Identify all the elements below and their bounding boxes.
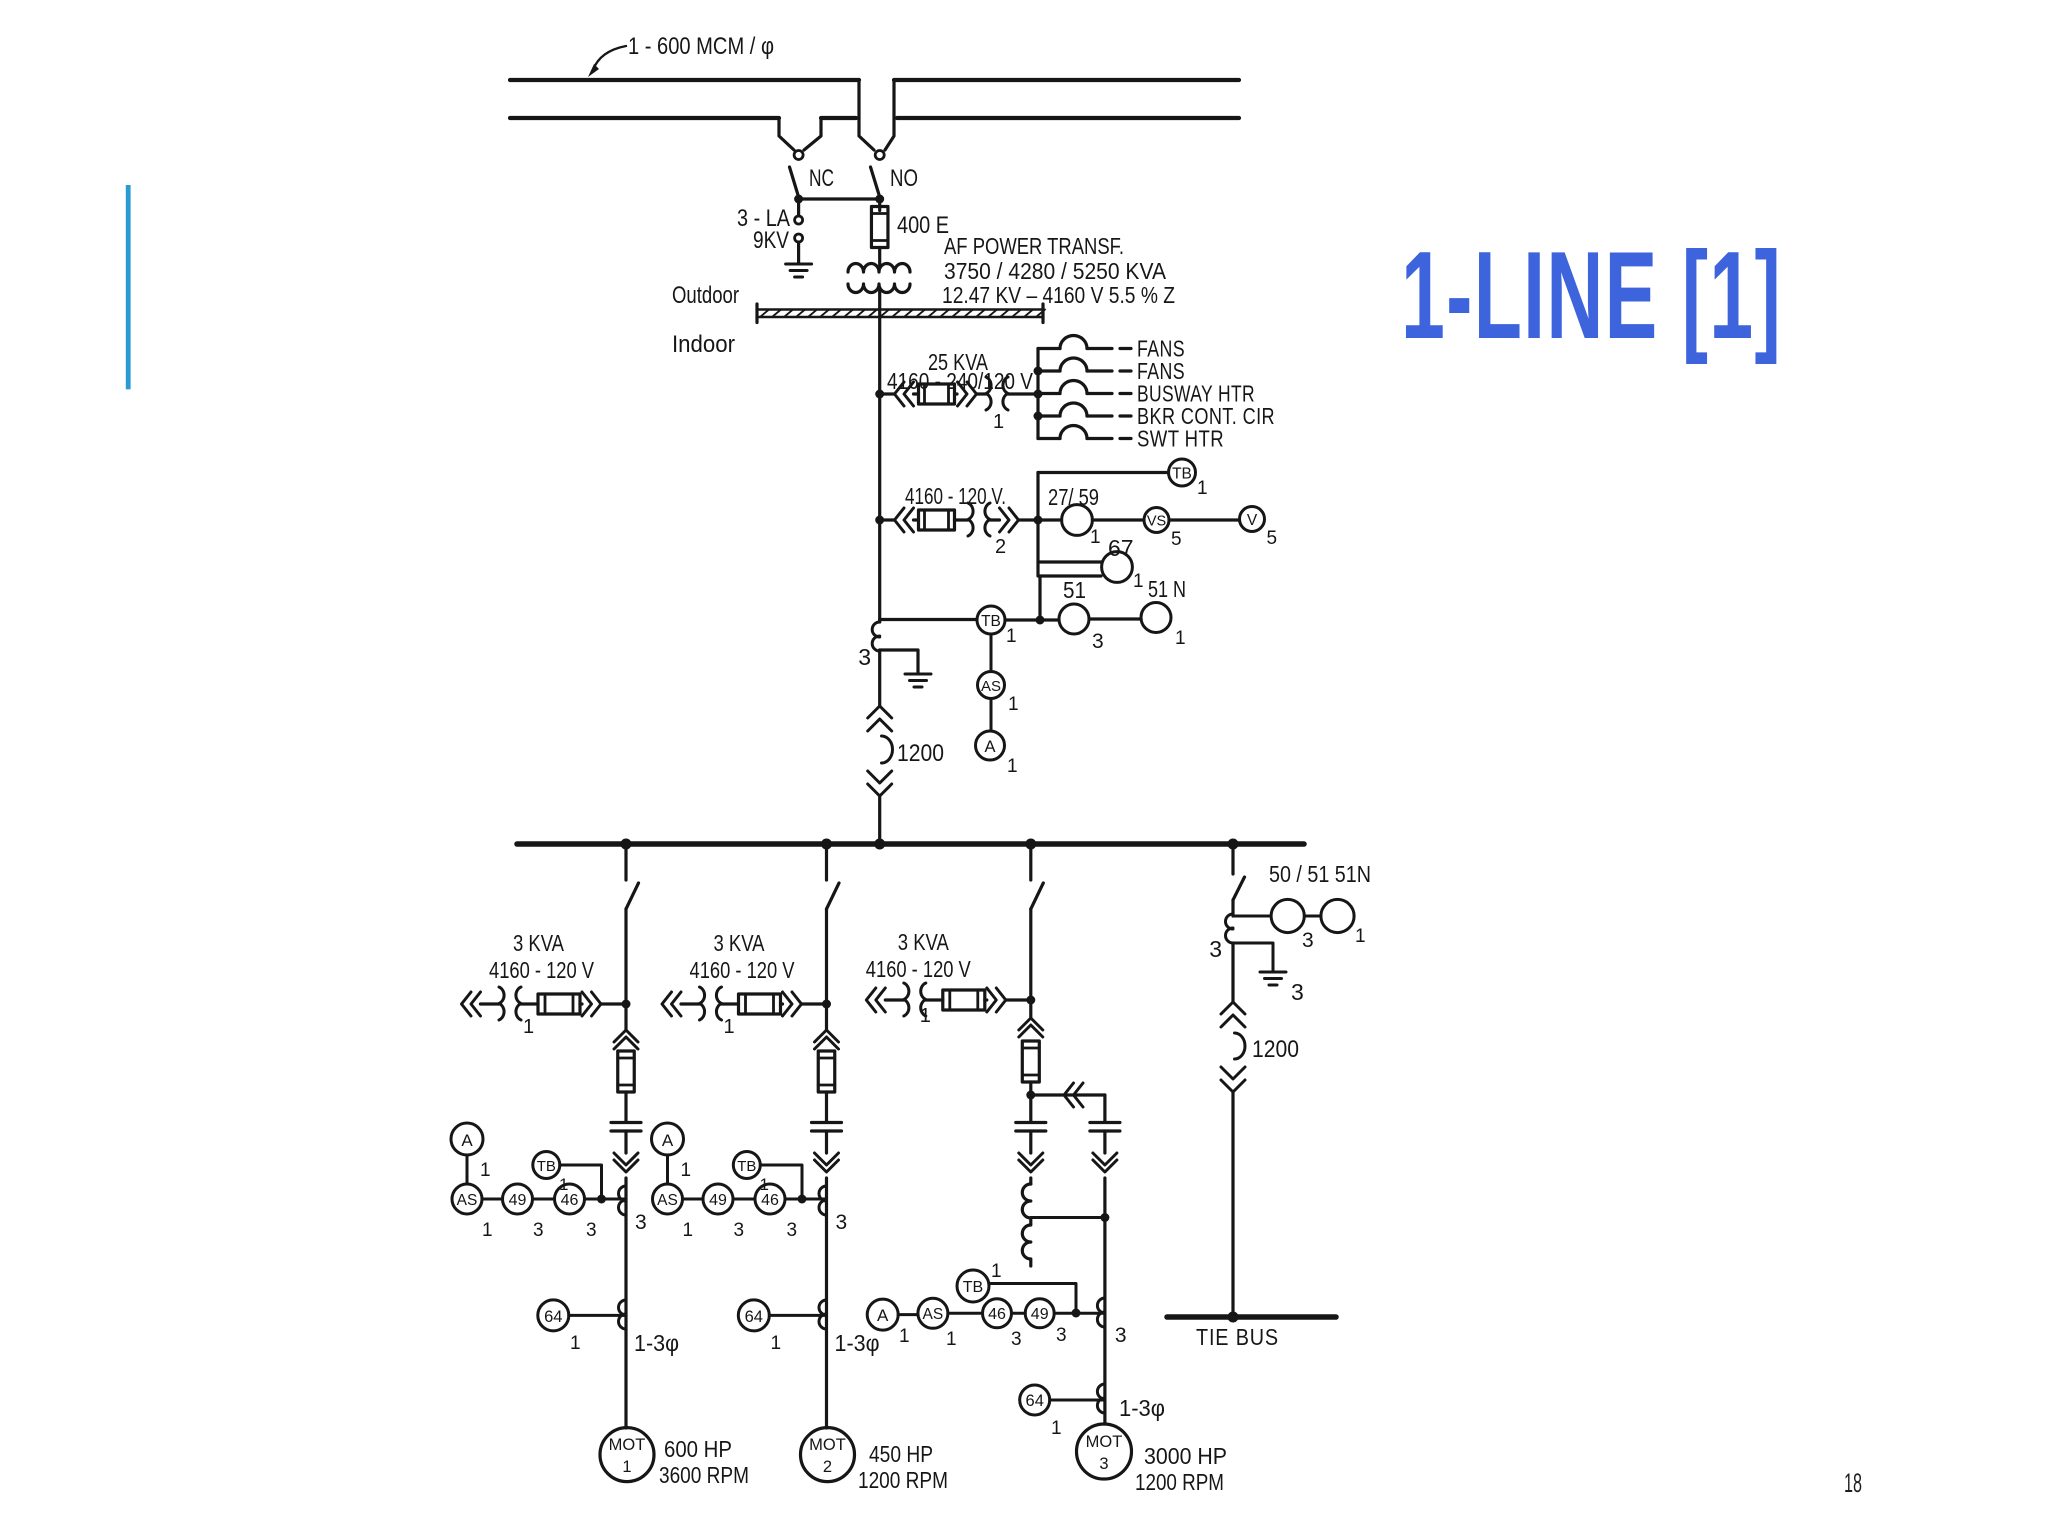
node switch NC bottom <box>794 195 803 204</box>
wire tie CT ground leg <box>1233 943 1273 971</box>
svg-text:1200 RPM: 1200 RPM <box>1135 1469 1224 1495</box>
svg-text:4160 - 120 V: 4160 - 120 V <box>690 957 796 983</box>
feeder3 wire fuse to chevrons <box>985 998 987 1001</box>
breaker 52-tie drawout chevrons top <box>1221 1002 1245 1027</box>
wire 64 to CT feeder2 <box>769 1314 826 1317</box>
relay 51N ground overcurrent <box>1141 603 1171 633</box>
svg-text:3: 3 <box>1115 1324 1127 1347</box>
wire feeder3 from bus <box>1029 846 1032 880</box>
feeder1 drawout chevrons PT line side <box>462 992 481 1016</box>
svg-text:2: 2 <box>823 1458 832 1476</box>
wire A to AS feeder1 <box>466 1155 469 1184</box>
svg-text:AS: AS <box>923 1306 944 1323</box>
node reactor tap junction <box>1100 1213 1109 1222</box>
svg-text:2: 2 <box>995 536 1006 558</box>
wire between switches <box>799 197 880 200</box>
wire CPT panel bus vertical <box>1036 349 1039 439</box>
svg-text:400 E: 400 E <box>897 212 949 239</box>
wire TB to AS main <box>990 634 993 672</box>
svg-text:51: 51 <box>1063 577 1086 603</box>
svg-text:1-LINE [1]: 1-LINE [1] <box>1401 227 1782 365</box>
wire feeder3 fuse to junction <box>1029 1082 1032 1095</box>
current transformer ground sensor feeder3 <box>1097 1384 1105 1413</box>
relay 49 thermal feeder3 <box>1025 1299 1054 1328</box>
wire feeder3 to contactor <box>1029 1000 1032 1018</box>
wire tie from bus <box>1231 846 1234 874</box>
relay 51N tie <box>1321 899 1354 932</box>
feeder2 fuse PT secondary <box>739 994 781 1014</box>
svg-text:TB: TB <box>981 613 1001 630</box>
load branch BUSWAY HTR <box>1038 392 1060 395</box>
svg-text:3750 / 4280 / 5250 KVA: 3750 / 4280 / 5250 KVA <box>944 258 1167 284</box>
svg-text:VS: VS <box>1147 514 1166 530</box>
svg-text:450 HP: 450 HP <box>869 1441 933 1467</box>
switch AS ammeter switch feeder1 <box>452 1184 482 1214</box>
svg-text:1: 1 <box>1006 626 1017 647</box>
svg-text:1: 1 <box>683 1220 694 1241</box>
wire incoming bus phase B (bottom) <box>510 116 779 120</box>
svg-text:A: A <box>984 738 995 756</box>
outdoor-indoor boundary hatched wall <box>757 310 1043 318</box>
relay TB trip bus feeder3 <box>957 1270 989 1302</box>
wire fuse to chevrons <box>955 392 958 395</box>
feeder1 potential transformer 3KVA windings <box>499 987 521 1020</box>
wire to relay TB1 <box>1038 471 1169 474</box>
contactor feeder2 drawout chevrons top <box>815 1030 839 1049</box>
drawout funnel NC tap <box>779 118 794 150</box>
drawout chevrons CPT line side <box>895 382 914 406</box>
wire to PT fuse <box>914 518 919 521</box>
svg-text:3: 3 <box>1099 1455 1108 1473</box>
wire feeder2 to motor <box>825 1178 828 1428</box>
switch feeder2 blade <box>827 883 840 909</box>
wire TB to 51 <box>1005 618 1059 621</box>
node feeder1 tap <box>621 839 632 850</box>
feeder2 drawout chevrons PT feeder side <box>783 992 802 1016</box>
current transformer ground sensor feeder1 <box>619 1300 626 1329</box>
drawout chevrons PT line side <box>895 508 914 532</box>
relay TB trip bus feeder1 <box>533 1152 560 1179</box>
svg-text:1: 1 <box>1197 478 1208 499</box>
svg-text:1-3φ: 1-3φ <box>835 1330 880 1356</box>
wire 46 to 49 feeder3 <box>1012 1312 1026 1315</box>
relay 64 ground feeder1 <box>538 1300 569 1331</box>
svg-text:1: 1 <box>681 1160 692 1181</box>
breaker 52-main drawout chevrons top <box>868 706 892 731</box>
relay 51 time overcurrent <box>1059 604 1089 634</box>
svg-text:1200: 1200 <box>897 740 944 767</box>
svg-text:46: 46 <box>561 1192 579 1209</box>
svg-text:1: 1 <box>1051 1418 1062 1439</box>
wire feeder3 switch to PT tap <box>1029 909 1032 1000</box>
transformer CPT 25KVA windings <box>986 377 1008 410</box>
feeder2 wire chevrons to feeder <box>802 1002 827 1005</box>
breaker 52-tie drawout chevrons bottom <box>1221 1067 1245 1092</box>
svg-text:Indoor: Indoor <box>672 331 735 358</box>
svg-text:3: 3 <box>1209 936 1222 962</box>
svg-text:1: 1 <box>991 1261 1002 1282</box>
switch AS ammeter switch feeder3 <box>918 1298 948 1328</box>
svg-text:1 - 600 MCM / φ: 1 - 600 MCM / φ <box>628 33 774 60</box>
wire fuse to PT windings <box>955 518 969 521</box>
wire transformer secondary trunk <box>878 288 881 622</box>
wire PT to instrument bus <box>1019 518 1039 521</box>
node feeder1 PT tap <box>622 1000 631 1009</box>
wire AS to 49 feeder1 <box>482 1198 503 1201</box>
ground for arrester <box>786 264 812 277</box>
svg-text:A: A <box>662 1131 674 1150</box>
svg-text:5: 5 <box>1171 529 1182 550</box>
contactor feeder3 run chevrons bottom <box>1093 1153 1117 1172</box>
svg-text:51 N: 51 N <box>1148 576 1186 602</box>
relay 49 thermal feeder1 <box>503 1184 533 1214</box>
wire TB to junction feeder1 <box>560 1165 602 1199</box>
fuse feeder2 power fuse <box>818 1051 835 1092</box>
svg-text:1: 1 <box>1007 756 1018 777</box>
wire 51 to 51N <box>1089 617 1141 620</box>
switch AS ammeter switch feeder2 <box>653 1184 683 1214</box>
svg-text:49: 49 <box>509 1192 527 1209</box>
ground CT neutral <box>905 674 931 687</box>
load branch FANS <box>1038 369 1060 372</box>
node feeder2 PT tap <box>822 1000 831 1009</box>
wire TB feeder3 to relay junction <box>989 1284 1076 1314</box>
meter VS voltmeter switch <box>1144 508 1169 533</box>
relay 27/59 undervoltage-overvoltage <box>1062 505 1093 536</box>
contactor feeder1 drawout chevrons top <box>614 1030 638 1049</box>
fuse CPT <box>919 384 955 404</box>
wire feeder1 contact to chevrons <box>624 1131 627 1153</box>
wire tie breaker to tie bus <box>1231 1092 1234 1315</box>
svg-text:18: 18 <box>1844 1468 1862 1498</box>
svg-text:46: 46 <box>988 1306 1006 1323</box>
lightning arrester 3-LA 9KV <box>797 199 800 216</box>
node relay junction feeder2 <box>798 1195 807 1204</box>
node feeder3 tap <box>1025 839 1036 850</box>
wire breaker to main bus <box>878 796 881 842</box>
svg-text:3: 3 <box>1056 1325 1067 1346</box>
feeder3 wire chevrons to windings <box>885 998 904 1001</box>
transformer T1 secondary winding <box>848 284 910 293</box>
slide accent bar (blue) <box>126 185 131 389</box>
motor MOT 3 <box>1077 1424 1132 1479</box>
relay TB trip bus feeder2 <box>733 1152 760 1179</box>
svg-text:V: V <box>1247 512 1258 529</box>
svg-text:3: 3 <box>858 644 871 670</box>
wire CT circuit to relay 67 <box>1040 574 1101 577</box>
wire AS to A main <box>990 699 993 732</box>
fuse feeder1 power fuse <box>618 1051 635 1092</box>
svg-text:64: 64 <box>1026 1392 1044 1410</box>
node tie bus junction <box>1228 1312 1239 1323</box>
wire 27/59 to VS <box>1092 518 1144 521</box>
svg-text:3: 3 <box>1092 630 1104 653</box>
relay 64 ground feeder3 <box>1020 1385 1050 1415</box>
current transformer feeder2 phase CTs <box>819 1186 826 1215</box>
node CPT panel bus <box>1034 390 1043 399</box>
wire feeder3 run line to motor <box>1103 1178 1106 1424</box>
feeder3 wire chevrons to feeder <box>1006 998 1031 1001</box>
svg-text:Outdoor: Outdoor <box>672 282 739 309</box>
contactor feeder2 contact bars <box>812 1123 842 1132</box>
svg-text:3: 3 <box>586 1220 597 1241</box>
wire feeder1 to motor <box>624 1178 627 1428</box>
wire A to AS feeder3 <box>898 1313 918 1316</box>
relay 50/51 tie <box>1271 899 1304 932</box>
feeder1 wire chevrons to feeder <box>601 1002 626 1005</box>
wire instrument bus vertical <box>1036 473 1039 577</box>
relay 64 ground feeder2 <box>738 1300 769 1331</box>
svg-text:5: 5 <box>1267 528 1278 549</box>
svg-text:1: 1 <box>993 411 1004 433</box>
svg-text:3000 HP: 3000 HP <box>1144 1443 1227 1469</box>
svg-text:TIE BUS: TIE BUS <box>1196 1324 1279 1350</box>
wire CT to relay TB <box>880 618 977 621</box>
current transformer feeder3 phase CTs <box>1097 1298 1105 1327</box>
wire 50/51 to 51N tie <box>1304 915 1321 918</box>
wire feeder1 to contactor <box>624 1004 627 1030</box>
svg-text:MOT: MOT <box>609 1436 646 1454</box>
wire feeder2 from bus <box>825 846 828 880</box>
switch NO blade <box>871 167 880 197</box>
wire to fuse 400E <box>878 199 881 211</box>
wire 49 to 46 feeder1 <box>533 1198 555 1201</box>
wire PT windings to chevrons <box>990 518 1000 521</box>
node feeder3 start-run split <box>1026 1091 1035 1100</box>
feeder3 drawout chevrons PT feeder side <box>987 988 1006 1012</box>
wire feeder3 jumper to run contactor <box>1031 1093 1105 1096</box>
node relay junction feeder1 <box>597 1195 606 1204</box>
current transformer tie 3 <box>1226 914 1233 943</box>
node feeder2 tap <box>821 839 832 850</box>
svg-text:4160 - 240/120 V: 4160 - 240/120 V <box>887 368 1034 394</box>
node main incoming tap <box>874 839 885 850</box>
meter A ammeter feeder2 <box>652 1123 684 1155</box>
feeder2 wire fuse to chevrons <box>781 1002 783 1005</box>
svg-text:MOT: MOT <box>809 1436 846 1454</box>
wire trunk CT to breaker <box>878 650 881 706</box>
svg-text:46: 46 <box>761 1192 779 1209</box>
wire feeder2 fuse to contact <box>825 1092 828 1121</box>
transformer T1 primary winding <box>848 264 910 273</box>
fuse 400E <box>871 207 888 248</box>
meter A ammeter feeder1 <box>451 1123 483 1155</box>
wire VS to V <box>1169 518 1240 521</box>
wire to CPT fuse <box>914 392 919 395</box>
svg-text:A: A <box>461 1131 473 1150</box>
node relay junction feeder3 <box>1072 1309 1081 1318</box>
svg-text:3: 3 <box>1011 1329 1022 1350</box>
feeder3 drawout chevrons PT line side <box>866 988 885 1012</box>
svg-text:SWT HTR: SWT HTR <box>1137 426 1224 452</box>
wire feeder2 switch to PT tap <box>825 909 828 1004</box>
wire feeder1 switch to PT tap <box>624 909 627 1004</box>
svg-text:49: 49 <box>709 1192 727 1209</box>
relay 67 directional overcurrent <box>1102 552 1133 583</box>
relay TB trip bus <box>1169 459 1196 486</box>
load branch FANS <box>1038 347 1060 350</box>
svg-text:3: 3 <box>1302 929 1314 952</box>
wire feeder3 to reactor <box>1029 1178 1032 1184</box>
svg-text:1: 1 <box>1090 527 1101 548</box>
contactor feeder3 start contact <box>1016 1123 1046 1132</box>
feeder3 potential transformer 3KVA windings <box>904 983 926 1016</box>
wire 64 to CT feeder3 <box>1050 1399 1105 1402</box>
contactor feeder1 contact bars <box>611 1123 641 1132</box>
wire tie CT to breaker <box>1231 943 1234 1002</box>
svg-text:A: A <box>877 1306 889 1325</box>
svg-text:1: 1 <box>1175 628 1186 649</box>
svg-text:3 KVA: 3 KVA <box>898 929 950 955</box>
feeder2 drawout chevrons PT line side <box>662 992 681 1016</box>
svg-text:3: 3 <box>533 1220 544 1241</box>
breaker 52-main contact arc <box>882 736 893 763</box>
wire 49 to CT feeder3 <box>1054 1312 1105 1315</box>
svg-text:TB: TB <box>737 1158 756 1175</box>
potential transformer PT windings <box>968 503 990 536</box>
wire feeder1 from bus <box>624 846 627 880</box>
svg-text:1: 1 <box>570 1333 581 1354</box>
svg-text:1: 1 <box>1008 694 1019 715</box>
contactor feeder3 start chevrons bottom <box>1019 1153 1043 1172</box>
wire instrument bus to relay 67 <box>1038 560 1102 563</box>
current transformer ground sensor feeder2 <box>819 1300 826 1329</box>
node tie tap <box>1228 839 1239 850</box>
switch NC blade <box>790 167 799 197</box>
current transformer feeder1 phase CTs <box>619 1186 626 1215</box>
wire fuse to transformer <box>878 248 881 268</box>
wire CT circuit vertical <box>1038 576 1041 620</box>
wire 49 to 46 feeder2 <box>733 1198 755 1201</box>
svg-text:3 KVA: 3 KVA <box>513 930 565 956</box>
svg-text:64: 64 <box>544 1308 562 1326</box>
svg-text:1: 1 <box>1133 571 1144 592</box>
switch feeder3 blade <box>1031 883 1044 909</box>
svg-text:4160 - 120 V: 4160 - 120 V <box>489 957 595 983</box>
wire AS to 49 feeder2 <box>683 1198 704 1201</box>
motor MOT 1 <box>600 1428 654 1482</box>
wire CT to ground leg <box>880 650 918 672</box>
svg-text:1200: 1200 <box>1252 1036 1299 1063</box>
svg-text:AS: AS <box>457 1192 478 1209</box>
wire feeder1 fuse to contact <box>624 1092 627 1121</box>
svg-text:1: 1 <box>724 1016 735 1038</box>
meter A ammeter feeder3 <box>867 1299 898 1330</box>
node CT relay junction <box>1036 616 1045 625</box>
switch AS ammeter switch main <box>978 672 1005 699</box>
relay 46 phase balance feeder3 <box>983 1299 1012 1328</box>
fuse feeder3 power fuse <box>1022 1041 1039 1082</box>
node switch NO bottom <box>875 195 884 204</box>
wire feeder2 to contactor <box>825 1004 828 1030</box>
meter V voltmeter <box>1240 507 1265 532</box>
wire TB to junction feeder2 <box>760 1165 802 1199</box>
svg-text:1: 1 <box>622 1458 631 1476</box>
feeder1 wire fuse to chevrons <box>580 1002 582 1005</box>
feeder1 wire windings to fuse <box>521 1002 538 1005</box>
svg-text:3 KVA: 3 KVA <box>714 930 766 956</box>
wire tie switch to CT <box>1231 900 1234 916</box>
wire trunk to PT drawout <box>880 518 895 521</box>
feeder2 wire chevrons to windings <box>681 1002 700 1005</box>
svg-text:1200 RPM: 1200 RPM <box>858 1467 948 1493</box>
feeder1 drawout chevrons PT feeder side <box>582 992 601 1016</box>
svg-text:49: 49 <box>1031 1306 1049 1323</box>
wire trunk to CPT drawout <box>880 392 895 395</box>
switch feeder1 blade <box>626 883 639 909</box>
relay 46 phase balance feeder1 <box>555 1184 585 1214</box>
contactor feeder3 run contact <box>1090 1123 1120 1132</box>
meter A ammeter main <box>976 731 1005 760</box>
svg-text:600 HP: 600 HP <box>664 1436 732 1462</box>
contactor feeder1 drawout chevrons bottom <box>614 1153 638 1172</box>
svg-text:1-3φ: 1-3φ <box>634 1330 679 1356</box>
svg-text:1: 1 <box>771 1333 782 1354</box>
wire 46 to CT feeder2 <box>785 1198 827 1201</box>
svg-text:1: 1 <box>760 1175 769 1194</box>
svg-text:TB: TB <box>1172 466 1192 483</box>
breaker 52-tie contact arc <box>1235 1033 1246 1059</box>
node feeder3 PT tap <box>1026 996 1035 1005</box>
svg-text:4160 - 120 V.: 4160 - 120 V. <box>905 483 1006 509</box>
bus main 4160V <box>517 841 1304 847</box>
svg-text:1: 1 <box>480 1160 491 1181</box>
node bkr cont branch <box>1034 412 1043 421</box>
terminal circle NC <box>794 151 803 160</box>
wire A to AS feeder2 <box>666 1155 669 1184</box>
svg-text:3: 3 <box>635 1211 647 1234</box>
wire CPT secondary <box>1008 392 1038 395</box>
ground tie CT neutral <box>1260 972 1286 985</box>
svg-text:1: 1 <box>946 1329 957 1350</box>
node PT instrument junction <box>1034 516 1043 525</box>
current transformer main 3 <box>872 622 879 651</box>
svg-text:TB: TB <box>537 1158 556 1175</box>
svg-text:NO: NO <box>890 165 918 192</box>
fuse PT <box>919 510 955 530</box>
wire junction to 27/59 <box>1038 518 1062 521</box>
feeder1 fuse PT secondary <box>538 994 580 1014</box>
wire feeder2 contact to chevrons <box>825 1131 828 1153</box>
svg-text:1-3φ: 1-3φ <box>1119 1395 1165 1421</box>
drawout chevrons CPT load side <box>958 382 977 406</box>
leader arrow to bus <box>593 46 626 70</box>
svg-text:3: 3 <box>1291 979 1304 1005</box>
load branch SWT HTR <box>1038 437 1060 440</box>
svg-text:3: 3 <box>734 1220 745 1241</box>
svg-text:TB: TB <box>963 1279 983 1296</box>
feeder1 wire chevrons to windings <box>481 1002 500 1005</box>
relay 49 thermal feeder2 <box>703 1184 733 1214</box>
switch tie blade <box>1233 877 1245 900</box>
svg-text:9KV: 9KV <box>753 227 789 254</box>
terminal circle NO <box>875 151 884 160</box>
reactor starting autotransformer <box>1022 1184 1031 1266</box>
svg-text:64: 64 <box>745 1308 763 1326</box>
wire reactor tap to run line <box>1031 1216 1105 1219</box>
contactor feeder2 drawout chevrons bottom <box>815 1153 839 1172</box>
svg-text:AS: AS <box>657 1192 678 1209</box>
relay 46 phase balance feeder2 <box>755 1184 785 1214</box>
contactor feeder3 drawout chevrons top <box>1019 1018 1043 1037</box>
node CPT tap on trunk <box>875 390 884 399</box>
svg-text:NC: NC <box>809 165 834 192</box>
svg-text:1: 1 <box>559 1175 568 1194</box>
wire 46 to CT feeder1 <box>585 1198 627 1201</box>
svg-text:3: 3 <box>836 1211 848 1234</box>
svg-text:4160 - 120 V: 4160 - 120 V <box>866 956 972 982</box>
drawout funnel NO tap <box>859 80 874 150</box>
